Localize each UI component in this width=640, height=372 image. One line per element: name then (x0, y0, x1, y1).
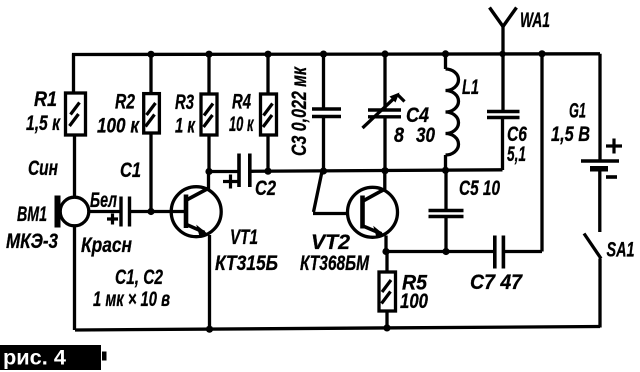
svg-text:1,5 В: 1,5 В (551, 123, 590, 146)
svg-text:Бел: Бел (90, 189, 117, 212)
svg-text:100: 100 (400, 290, 428, 313)
svg-text:WA1: WA1 (520, 9, 550, 32)
svg-text:SA1: SA1 (607, 239, 635, 262)
svg-text:R3: R3 (175, 91, 194, 114)
svg-text:С2: С2 (255, 177, 276, 200)
svg-text:КТ368БМ: КТ368БМ (300, 252, 369, 275)
svg-text:рис. 4: рис. 4 (3, 347, 66, 370)
svg-text:1 мк × 10 в: 1 мк × 10 в (93, 288, 170, 311)
svg-text:5,1: 5,1 (507, 143, 526, 166)
svg-text:С1, С2: С1, С2 (115, 266, 163, 289)
svg-text:МКЭ-3: МКЭ-3 (6, 230, 58, 253)
svg-text:1 к: 1 к (175, 115, 196, 138)
svg-text:R4: R4 (232, 91, 251, 114)
svg-text:10 к: 10 к (229, 113, 254, 136)
svg-text:1,5 к: 1,5 к (26, 112, 61, 135)
svg-text:30: 30 (416, 124, 435, 147)
svg-text:L1: L1 (462, 76, 479, 99)
svg-text:R1: R1 (34, 88, 57, 111)
svg-text:Син: Син (28, 157, 58, 180)
svg-text:8: 8 (394, 124, 404, 147)
svg-text:VT1: VT1 (230, 226, 258, 249)
svg-text:С5 10: С5 10 (459, 177, 500, 200)
svg-text:КТ315Б: КТ315Б (215, 252, 278, 275)
svg-text:С7 47: С7 47 (470, 271, 523, 294)
svg-text:R2: R2 (115, 91, 135, 114)
svg-text:100 к: 100 к (97, 115, 140, 138)
svg-text:ВМ1: ВМ1 (17, 203, 47, 226)
svg-text:VT2: VT2 (311, 231, 350, 254)
svg-text:С1: С1 (120, 159, 141, 182)
svg-text:Красн: Красн (81, 234, 132, 257)
svg-text:G1: G1 (569, 100, 586, 123)
svg-text:С3 0,022 мк: С3 0,022 мк (288, 66, 311, 156)
